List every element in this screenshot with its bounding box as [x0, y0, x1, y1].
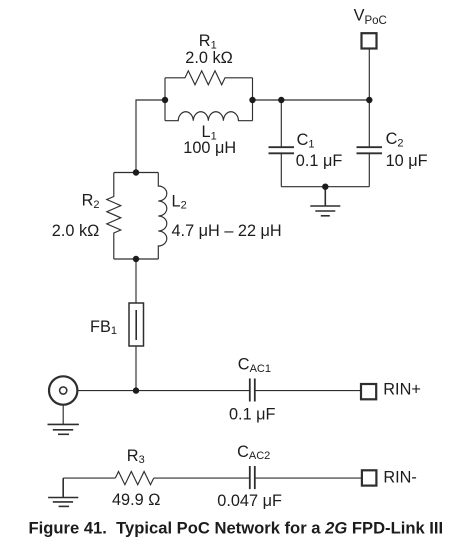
- wire CAC1 to RIN+ box: [255, 390, 361, 392]
- wire CAC2 to RIN- box: [255, 477, 362, 479]
- ferrite bead FB1: [129, 303, 144, 346]
- wire C1 C2 bottom rail: [281, 186, 369, 188]
- wire R3 to CAC2: [154, 477, 250, 479]
- connector coax: [49, 376, 77, 404]
- inductor L1: [165, 112, 253, 121]
- capacitor C1: [269, 100, 295, 187]
- node RIN- terminal box: [362, 470, 377, 485]
- junction dot C1: [278, 97, 284, 103]
- resistor R3: [115, 472, 153, 485]
- resistor R1: [165, 71, 253, 85]
- svg-text:100 μH: 100 μH: [183, 139, 236, 157]
- junction dot C2: [366, 97, 372, 103]
- wire R2L2 to FB1: [135, 259, 137, 303]
- wire ground to R3: [63, 477, 115, 479]
- svg-text:49.9 Ω: 49.9 Ω: [112, 491, 160, 509]
- inductor L2: [158, 173, 167, 260]
- svg-text:10 μF: 10 μF: [386, 152, 428, 170]
- svg-text:0.1 μF: 0.1 μF: [296, 152, 343, 170]
- wire connector to ground: [62, 405, 64, 425]
- svg-text:2.0 kΩ: 2.0 kΩ: [52, 222, 99, 240]
- junction dot R2L2 bottom: [133, 256, 139, 262]
- svg-text:0.1 μF: 0.1 μF: [229, 405, 276, 423]
- svg-text:Figure 41. Typical PoC Networ: Figure 41. Typical PoC Network for a 2G …: [29, 519, 444, 538]
- junction dot R2L2 top: [133, 169, 139, 175]
- ground below C1 C2: [310, 187, 340, 216]
- wire top rail right segment: [253, 99, 370, 101]
- wire R2L2 top edge: [114, 172, 159, 174]
- wire VPoC to top rail: [368, 49, 370, 101]
- wire R1L1 left edge: [164, 78, 166, 121]
- junction dot top rail left: [162, 97, 168, 103]
- svg-text:2.0 kΩ: 2.0 kΩ: [185, 49, 232, 67]
- svg-text:RIN-: RIN-: [383, 469, 416, 487]
- svg-text:4.7 μH – 22 μH: 4.7 μH – 22 μH: [172, 222, 282, 240]
- wire top rail left segment: [136, 100, 165, 173]
- wire RIN+ rail: [77, 390, 249, 392]
- resistor R2: [107, 173, 121, 260]
- junction dot RIN+ rail: [133, 387, 139, 393]
- capacitor C2: [357, 100, 383, 187]
- node RIN+ terminal box: [361, 384, 376, 399]
- capacitor CAC1: [250, 379, 255, 402]
- junction dot top rail right: [249, 97, 255, 103]
- svg-text:0.047 μF: 0.047 μF: [217, 492, 282, 510]
- capacitor CAC2: [250, 466, 255, 489]
- wire FB1 to RIN+ rail: [135, 346, 137, 391]
- junction dot ground mid: [322, 184, 328, 190]
- ground below connector: [48, 424, 79, 434]
- wire R1L1 right edge: [252, 78, 254, 121]
- ground left of R3: [48, 478, 78, 506]
- wire R2L2 bottom edge: [114, 258, 159, 260]
- svg-text:RIN+: RIN+: [383, 381, 421, 399]
- node VPoC terminal box: [362, 33, 377, 48]
